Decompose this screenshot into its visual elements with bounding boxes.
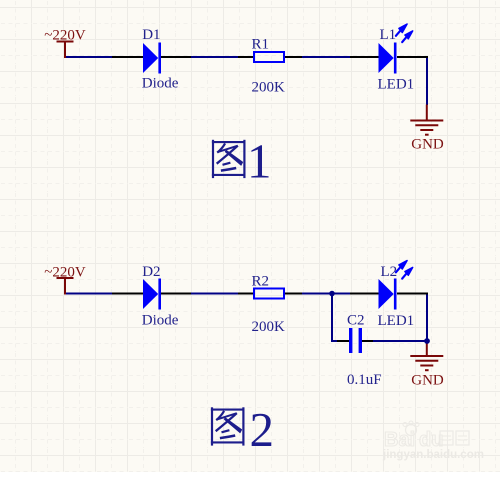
svg-text:LED1: LED1	[378, 313, 415, 329]
svg-text:Bai: Bai	[384, 429, 415, 451]
svg-text:1: 1	[247, 134, 272, 189]
svg-text:Diode: Diode	[142, 313, 179, 329]
svg-text:R1: R1	[252, 37, 270, 53]
svg-text:200K: 200K	[252, 319, 286, 335]
svg-text:L2: L2	[381, 264, 398, 280]
svg-text:200K: 200K	[252, 80, 286, 96]
svg-text:~220V: ~220V	[44, 28, 86, 44]
svg-text:jingyan.baidu.com: jingyan.baidu.com	[382, 449, 484, 461]
svg-text:GND: GND	[411, 373, 444, 389]
svg-text:Diode: Diode	[142, 76, 179, 92]
svg-text:C2: C2	[347, 313, 365, 329]
svg-text:L1: L1	[380, 27, 397, 43]
svg-text:D1: D1	[142, 27, 160, 43]
svg-text:0.1uF: 0.1uF	[347, 372, 382, 388]
svg-text:LED1: LED1	[378, 77, 415, 93]
svg-text:D2: D2	[142, 264, 160, 280]
svg-text:GND: GND	[411, 137, 444, 153]
svg-text:~220V: ~220V	[44, 265, 86, 281]
svg-text:R2: R2	[252, 274, 270, 290]
svg-text:2: 2	[250, 402, 275, 457]
